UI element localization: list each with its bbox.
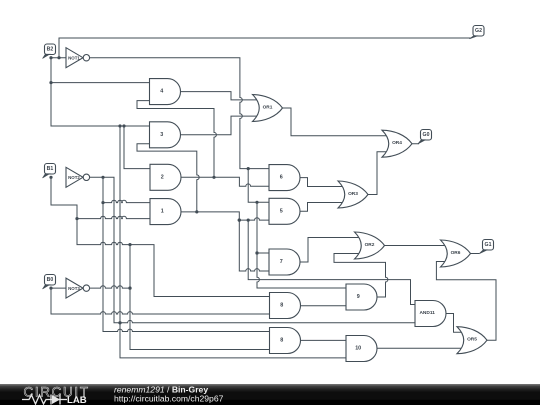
- svg-text:OR1: OR1: [263, 105, 273, 111]
- svg-text:LAB: LAB: [67, 395, 87, 405]
- svg-text:OR2: OR2: [365, 242, 375, 248]
- svg-text:7: 7: [280, 259, 283, 265]
- svg-text:NOT3: NOT3: [68, 286, 80, 291]
- svg-text:G1: G1: [485, 242, 492, 248]
- svg-text:NOT1: NOT1: [68, 56, 80, 61]
- svg-text:OR3: OR3: [348, 191, 358, 197]
- svg-text:OR4: OR4: [392, 140, 402, 146]
- svg-text:4: 4: [160, 89, 163, 95]
- svg-text:2: 2: [161, 174, 164, 180]
- svg-text:10: 10: [355, 346, 361, 352]
- svg-text:9: 9: [357, 294, 360, 300]
- svg-text:6: 6: [280, 175, 283, 181]
- svg-text:OR6: OR6: [451, 250, 461, 256]
- svg-text:8: 8: [280, 303, 283, 309]
- svg-text:OR5: OR5: [467, 337, 477, 343]
- svg-text:B0: B0: [47, 277, 54, 283]
- svg-text:AND11: AND11: [419, 310, 435, 316]
- svg-text:5: 5: [280, 208, 283, 214]
- svg-text:8: 8: [280, 338, 283, 344]
- svg-text:1: 1: [161, 209, 164, 215]
- svg-text:3: 3: [160, 132, 163, 138]
- svg-text:B2: B2: [47, 47, 54, 53]
- svg-text:NOT2: NOT2: [68, 175, 80, 180]
- svg-text:B1: B1: [47, 166, 54, 172]
- svg-text:G0: G0: [423, 132, 430, 138]
- svg-text:G2: G2: [475, 28, 482, 34]
- svg-text:http://circuitlab.com/ch29p67: http://circuitlab.com/ch29p67: [114, 393, 224, 403]
